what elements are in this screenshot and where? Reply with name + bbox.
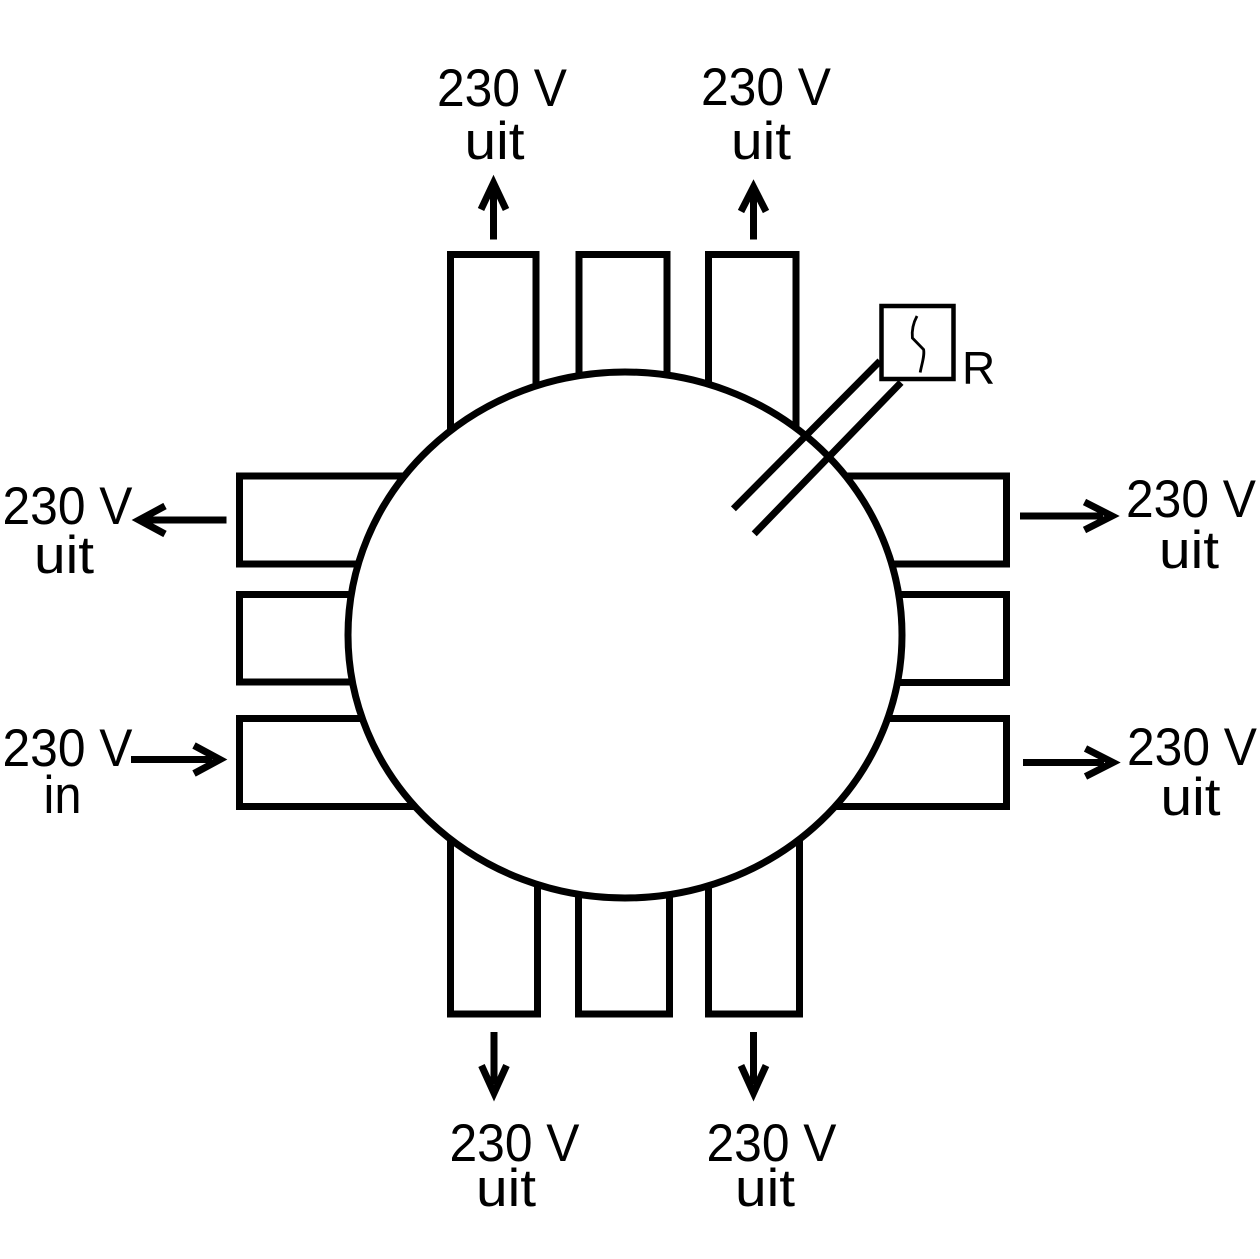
label 230 V uit right-1	[1126, 470, 1257, 580]
distribution hub ellipse	[348, 372, 902, 898]
label 230 V uit top-left	[437, 59, 568, 171]
label 230 V uit left	[3, 477, 134, 585]
svg-text:230 V: 230 V	[437, 59, 568, 118]
arrow 230V out right-3	[1023, 749, 1113, 777]
socket tab bottom-1	[451, 814, 538, 1014]
svg-text:in: in	[44, 766, 82, 825]
label 230 V uit bottom-left	[450, 1114, 581, 1218]
socket tab top-2	[579, 255, 667, 455]
socket tab bottom-3	[709, 814, 800, 1014]
relay box R	[882, 306, 954, 379]
relay switch squiggle	[912, 316, 924, 373]
svg-text:uit: uit	[1159, 521, 1219, 580]
label 230 V uit bottom-right	[707, 1114, 838, 1218]
label 230 V in left	[3, 719, 134, 825]
arrow 230V out top-left	[481, 183, 506, 240]
arrow 230V in left	[131, 746, 220, 774]
socket tab top-1	[451, 255, 537, 455]
svg-text:uit: uit	[1161, 768, 1221, 827]
label 230 V uit top-right	[701, 58, 832, 171]
socket tab right-1	[807, 476, 1007, 564]
svg-text:uit: uit	[735, 1159, 795, 1218]
arrow 230V out top-right	[741, 187, 766, 240]
svg-text:uit: uit	[731, 112, 791, 171]
svg-text:uit: uit	[465, 112, 525, 171]
arrow 230V out bottom-right	[741, 1032, 766, 1093]
socket tab left-1	[240, 476, 440, 564]
svg-text:uit: uit	[476, 1159, 536, 1218]
arrow 230V out right-1	[1020, 502, 1112, 530]
socket tab right-2	[807, 595, 1007, 683]
svg-text:uit: uit	[34, 526, 94, 585]
svg-text:230 V: 230 V	[701, 58, 832, 117]
wire to relay (lower line)	[754, 383, 901, 534]
arrow 230V out bottom-left	[482, 1032, 507, 1093]
socket tab right-3	[807, 719, 1007, 807]
arrow 230V out left	[139, 506, 227, 534]
socket tab bottom-2	[579, 814, 670, 1014]
socket tab left-2	[240, 595, 440, 683]
socket tab left-3	[240, 719, 440, 807]
wire to relay (upper line)	[733, 361, 880, 509]
label 230 V uit right-3	[1127, 718, 1258, 827]
svg-text:R: R	[962, 342, 995, 394]
socket tab top-3	[709, 255, 797, 455]
